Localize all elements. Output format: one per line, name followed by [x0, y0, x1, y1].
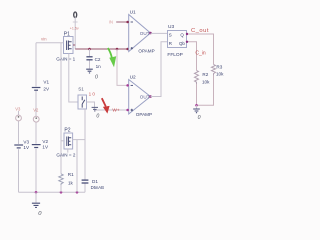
- bottom rail wire: [19, 191, 86, 193]
- wire P1 left gain chain vertical: [60, 43, 62, 193]
- P2 left pin wire: [61, 140, 64, 142]
- R3 lower wire: [197, 76, 214, 106]
- V1 battery: [32, 87, 41, 89]
- power bubble V+: [74, 12, 77, 18]
- S1 right pin wire: [87, 102, 128, 110]
- ground at cap: [86, 69, 93, 73]
- ground right: [193, 109, 200, 113]
- svg-text:OUT: OUT: [140, 31, 150, 36]
- U2 minus pin dot: [126, 84, 129, 87]
- S1 inner glyph: [82, 97, 85, 108]
- svg-text:OPAMP: OPAMP: [136, 112, 152, 117]
- U1 plus mark: [131, 47, 133, 49]
- svg-text:1V: 1V: [23, 145, 30, 150]
- svg-text:C_out: C_out: [191, 28, 209, 34]
- Q pin dot: [186, 33, 188, 35]
- svg-text:V3: V3: [15, 106, 21, 111]
- P2 output wire: [73, 139, 85, 141]
- U2 plus mark: [131, 109, 133, 111]
- R2 lower wire: [196, 84, 198, 105]
- U3 flip-flop box: [168, 31, 187, 48]
- P1 inner glyph: [67, 41, 72, 51]
- svg-text:V2: V2: [33, 108, 39, 113]
- U1 output dot: [149, 32, 152, 35]
- svg-text:+1.5v: +1.5v: [70, 26, 79, 30]
- wire mid vertical to rail: [76, 140, 78, 193]
- svg-text:1k: 1k: [68, 181, 74, 186]
- source circle V3: [16, 115, 22, 121]
- resistor R2: [195, 70, 199, 84]
- svg-text:IN: IN: [109, 20, 113, 25]
- wire P1 bottom to S1: [69, 54, 78, 103]
- svg-text:P2: P2: [64, 127, 70, 133]
- svg-text:V2: V2: [42, 139, 48, 144]
- svg-text:1V: 1V: [42, 144, 49, 149]
- P2 box: [64, 133, 73, 149]
- P1 box: [64, 37, 74, 54]
- svg-text:Qb: Qb: [179, 41, 185, 46]
- svg-text:D1: D1: [92, 179, 98, 184]
- resistor R3: [212, 64, 216, 75]
- P2 bottom stub: [67, 149, 69, 153]
- svg-text:R: R: [169, 41, 172, 46]
- Qb pin dot: [186, 41, 188, 43]
- U1 minus stub wire: [116, 21, 129, 23]
- capacitor C2: [86, 56, 92, 58]
- svg-text:GAIN = 1: GAIN = 1: [56, 56, 75, 61]
- svg-text:U2: U2: [130, 75, 136, 81]
- green probe arrow: [108, 48, 112, 58]
- cap branch wire: [89, 49, 91, 69]
- U2 output wire up to R pin: [151, 42, 168, 97]
- svg-text:10k: 10k: [216, 72, 224, 77]
- U2 output dot: [149, 95, 152, 98]
- U1 minus mark: [131, 21, 133, 23]
- power tick: [73, 21, 78, 23]
- rail junction V sources: [35, 191, 38, 194]
- svg-text:FFLOP: FFLOP: [167, 52, 182, 58]
- wire U2 minus branch: [117, 49, 129, 85]
- P2 inner glyph: [67, 137, 71, 147]
- junction U2 branch: [116, 48, 119, 51]
- junction cap branch: [88, 48, 91, 51]
- svg-text:S: S: [169, 33, 172, 38]
- svg-text:OUT: OUT: [140, 94, 150, 99]
- U2 plus pin dot: [126, 109, 129, 112]
- svg-text:C2: C2: [95, 57, 101, 62]
- ground main stub: [35, 192, 37, 203]
- svg-text:W+: W+: [112, 108, 120, 114]
- svg-text:0: 0: [96, 113, 99, 119]
- svg-text:OPAMP: OPAMP: [138, 48, 154, 53]
- source circle V2: [33, 116, 39, 122]
- svg-text:0: 0: [95, 75, 98, 81]
- rail junction mid: [76, 191, 79, 194]
- svg-text:U1: U1: [130, 9, 136, 15]
- svg-text:R3: R3: [216, 65, 222, 70]
- ground right stub: [196, 105, 198, 108]
- svg-text:R1: R1: [68, 172, 74, 177]
- junction R2 R3: [195, 104, 198, 107]
- wire P1 output horizontal: [73, 45, 129, 49]
- svg-text:R2: R2: [202, 72, 208, 77]
- V2 battery: [32, 144, 41, 146]
- svg-text:U3: U3: [168, 24, 174, 30]
- U1 output wire: [151, 32, 168, 34]
- svg-text:V3: V3: [23, 139, 29, 144]
- svg-text:V1: V1: [43, 80, 49, 85]
- wire vin horizontal: [36, 42, 64, 44]
- wire power vertical: [74, 17, 76, 49]
- red probe arrow U2 input: [102, 98, 106, 106]
- U2 minus mark: [131, 84, 133, 86]
- Qb output wire: [187, 42, 197, 71]
- svg-text:GAIN = 2: GAIN = 2: [56, 152, 75, 157]
- U1 minus pin dot: [126, 21, 129, 24]
- ground at switch: [92, 107, 98, 111]
- capacitor C1: [82, 179, 89, 181]
- svg-text:1n: 1n: [96, 64, 102, 69]
- op-amp U2: [129, 80, 151, 115]
- svg-text:0: 0: [198, 115, 201, 121]
- svg-text:P1: P1: [64, 31, 70, 37]
- svg-text:D5nAB: D5nAB: [91, 185, 104, 190]
- svg-text:S1: S1: [78, 86, 84, 91]
- svg-text:vin: vin: [41, 36, 47, 41]
- svg-text:1 0: 1 0: [89, 92, 96, 97]
- rail junction R1: [60, 191, 63, 194]
- S1 bottom wire with C1: [84, 109, 86, 192]
- svg-text:C_in: C_in: [195, 51, 206, 57]
- Q output wire: [187, 34, 214, 64]
- svg-text:Q: Q: [180, 33, 184, 38]
- op-amp U1: [129, 15, 151, 52]
- ground main: [32, 203, 40, 207]
- svg-text:10k: 10k: [202, 80, 210, 85]
- wire far-left vertical V3 branch: [18, 111, 20, 192]
- U1 plus pin dot: [126, 48, 129, 51]
- svg-text:2V: 2V: [43, 87, 50, 92]
- resistor R1: [59, 174, 63, 185]
- S1 box: [78, 95, 87, 109]
- V3 battery: [14, 144, 23, 146]
- wire left vertical V1 branch: [35, 43, 37, 193]
